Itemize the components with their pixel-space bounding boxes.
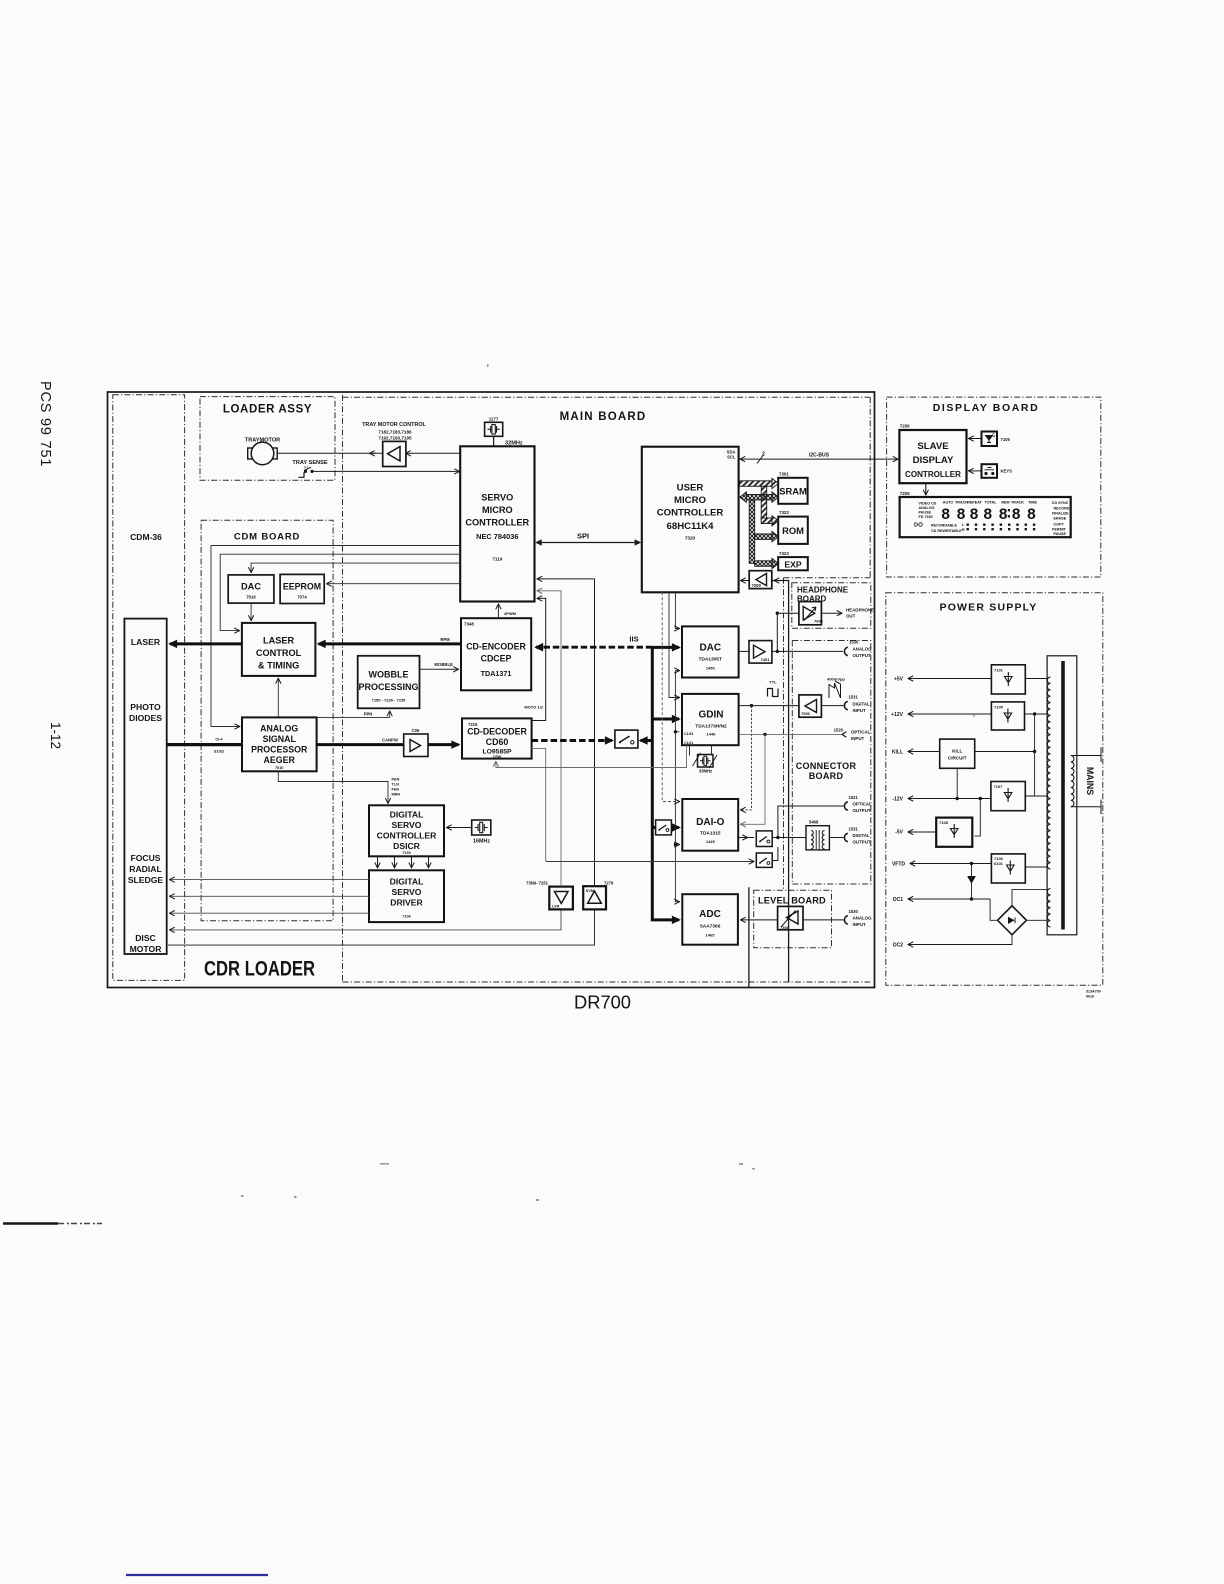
svg-text:MAINS: MAINS	[1085, 767, 1095, 795]
tray motor M1	[245, 438, 280, 465]
svg-text:BOARD: BOARD	[809, 771, 844, 781]
stray pen line bottom left	[3, 1222, 58, 1224]
board border POWER SUPPLY	[886, 593, 1103, 986]
svg-text:SERVO: SERVO	[392, 820, 422, 830]
svg-text:LEVEL BOARD: LEVEL BOARD	[758, 896, 826, 906]
svg-text:IIS: IIS	[629, 635, 638, 644]
crystal 16MHz	[447, 820, 491, 845]
board border LEVEL BOARD	[754, 890, 832, 948]
crystal 33MHz (GDIN)	[690, 745, 718, 773]
wire SDC to IR	[969, 438, 982, 440]
wire thick stub to GDIN	[652, 718, 679, 721]
board border DISPLAY BOARD	[887, 397, 1101, 577]
wire UMC ctrl C to DAC top-left	[675, 592, 679, 628]
wire DAI-O to S4	[738, 837, 754, 839]
svg-text:7105: 7105	[1001, 437, 1011, 442]
wire amp7401 to analog output with junction	[772, 650, 843, 652]
svg-text:FD 7180: FD 7180	[919, 515, 933, 519]
svg-text:CDCEP: CDCEP	[481, 654, 512, 664]
svg-text:ANALOG: ANALOG	[853, 647, 873, 652]
wire DC2 rail	[909, 935, 1013, 945]
wire DAC to LC&T	[250, 603, 252, 620]
svg-text:CIRCUIT: CIRCUIT	[948, 756, 967, 761]
power supply rail labels	[891, 677, 905, 949]
svg-text:INPUT: INPUT	[853, 922, 866, 927]
svg-text:COPY: COPY	[1054, 522, 1065, 526]
wire driver to servo MC	[406, 452, 460, 454]
wire tray motor to driver	[277, 452, 383, 454]
svg-text:S1/S2: S1/S2	[214, 750, 224, 754]
wire -12V rail	[909, 798, 991, 800]
svg-text:-5V: -5V	[895, 830, 903, 836]
block CD-ENCODER CDCEP 7348	[461, 618, 531, 690]
switch S3 before DAI-O	[656, 820, 672, 835]
svg-text:1446: 1446	[707, 732, 717, 737]
svg-text:ADC: ADC	[699, 909, 721, 920]
svg-text:1-12: 1-12	[48, 722, 63, 749]
svg-text:CANPW: CANPW	[382, 737, 398, 742]
svg-text:7150 - 7230 - 7235: 7150 - 7230 - 7235	[372, 698, 407, 703]
svg-text:KEYS: KEYS	[1001, 469, 1013, 474]
wire GDIN to 7500 + drop to DAI-O	[739, 705, 799, 707]
svg-text:SERVO: SERVO	[481, 493, 513, 503]
wire headphone out	[821, 612, 841, 614]
buffer 7200	[749, 571, 772, 589]
svg-text:8: 8	[941, 506, 950, 524]
regulator 7101	[991, 665, 1025, 694]
wire thick stub to DAI-O input switch	[652, 826, 655, 829]
svg-text:7366: 7366	[780, 925, 790, 930]
wire DC1 rail	[909, 898, 991, 900]
svg-text:SVM: SVM	[586, 889, 594, 893]
wire IIS dashed to CD-ENCODER	[536, 646, 652, 649]
svg-text:DIGITAL: DIGITAL	[853, 833, 871, 838]
svg-text:TDA1373H/N2: TDA1373H/N2	[695, 724, 727, 730]
svg-text:KILL: KILL	[892, 750, 903, 756]
block U7119 SERVO MICRO CONTROLLER	[460, 446, 534, 601]
svg-text:7323: 7323	[779, 551, 789, 556]
svg-text:ANALOG: ANALOG	[260, 724, 298, 734]
svg-text:DIODES: DIODES	[129, 713, 162, 723]
svg-text:7107: 7107	[994, 784, 1004, 789]
svg-text:4PWM: 4PWM	[504, 611, 517, 616]
svg-text:D: D	[914, 523, 918, 529]
bus data cross-hatched UMC to SRAM/ROM/EXP	[740, 492, 779, 569]
svg-text:LOADER ASSY: LOADER ASSY	[223, 404, 312, 416]
svg-text:MAIN BOARD: MAIN BOARD	[560, 411, 647, 423]
driver SVM 7279	[583, 881, 614, 910]
connector 1530 analog output	[844, 647, 847, 655]
svg-text:MICRO: MICRO	[482, 505, 513, 515]
svg-text:LVR: LVR	[552, 905, 560, 909]
svg-text:7279: 7279	[604, 881, 614, 886]
svg-text:VFTD: VFTD	[892, 862, 905, 868]
svg-text:+12V: +12V	[891, 712, 903, 718]
svg-text:SPI: SPI	[577, 532, 589, 541]
svg-text:5468: 5468	[809, 820, 819, 825]
svg-text:CONNECTOR: CONNECTOR	[796, 761, 857, 771]
wires DSICR to DSD (4 arrows)	[377, 856, 379, 867]
svg-text:7320: 7320	[685, 536, 696, 541]
EEPROM 7074	[280, 574, 324, 603]
svg-text:LASER: LASER	[263, 636, 295, 646]
svg-text:1530: 1530	[849, 909, 859, 914]
block WOBBLE PROCESSING	[358, 656, 420, 709]
svg-text:HEADPHONE: HEADPHONE	[846, 608, 874, 613]
svg-text:HEADPHONE: HEADPHONE	[797, 586, 849, 595]
svg-text:MOTOR: MOTOR	[130, 944, 163, 954]
svg-text:1531: 1531	[849, 826, 859, 831]
svg-text:8: 8	[983, 506, 992, 524]
svg-text:TRAY MOTOR CONTROL: TRAY MOTOR CONTROL	[362, 422, 426, 428]
connector 1520 optical input	[842, 732, 846, 737]
svg-text:8: 8	[1027, 506, 1036, 524]
svg-text:DC1: DC1	[893, 897, 903, 903]
DAI-O TDA1315	[682, 799, 738, 851]
wire -5V rail	[909, 831, 937, 833]
svg-text:-12V: -12V	[892, 797, 903, 803]
svg-text:OUTPUT: OUTPUT	[853, 808, 871, 813]
wire amp C06 to CD-DECODER thick	[428, 743, 459, 746]
wire UMC to buffer 7200	[741, 580, 749, 582]
svg-text:ANALOG: ANALOG	[919, 506, 935, 510]
svg-text:CONTROLLER: CONTROLLER	[905, 469, 962, 479]
wire CL multi-drop line	[675, 671, 679, 902]
GDIN TDA1373H/N2	[682, 694, 739, 745]
svg-text:USER: USER	[677, 483, 704, 494]
switch S4 after DAI-O (digital out)	[756, 831, 772, 847]
svg-text:DISC: DISC	[135, 933, 156, 943]
svg-text:7106: 7106	[402, 915, 410, 919]
svg-text:7401: 7401	[761, 657, 771, 662]
board border CDM BOARD	[201, 520, 333, 921]
regulator 7100	[991, 854, 1025, 883]
block U7320 USER MICRO CONTROLLER	[642, 447, 739, 593]
wire WOBBLE out to CD-ENCODER	[420, 668, 459, 670]
svg-text:AEGER: AEGER	[264, 755, 296, 765]
board border MAIN BOARD	[343, 395, 871, 982]
KILL CIRCUIT	[940, 739, 975, 768]
svg-text:FOCUS: FOCUS	[130, 853, 160, 863]
svg-text:7130: 7130	[402, 851, 410, 855]
wire IIS stub into switch S2 right	[641, 739, 653, 742]
svg-text:CRW: CRW	[493, 755, 502, 759]
svg-text:7301: 7301	[779, 471, 789, 476]
svg-text:7206: 7206	[900, 424, 910, 429]
svg-text:16MHz: 16MHz	[473, 839, 490, 845]
wire VFTD rail + diode	[911, 863, 992, 865]
svg-text:ANALOG: ANALOG	[853, 916, 873, 921]
amp 7500	[799, 695, 822, 717]
svg-text:TDA1305T: TDA1305T	[699, 657, 723, 663]
amp 7401	[749, 641, 772, 664]
svg-text:OUTPUT: OUTPUT	[853, 653, 871, 658]
wire GDIN optical input + drop to DAI-O	[739, 733, 844, 735]
wire +5V rail	[909, 678, 992, 680]
svg-text:9616: 9616	[1086, 995, 1094, 999]
svg-text:TOTAL: TOTAL	[985, 501, 998, 505]
svg-text:DR700: DR700	[574, 992, 631, 1013]
connector 1530 analog input	[844, 916, 847, 924]
connector 1531 digital output	[844, 833, 847, 841]
svg-text:POWER SUPPLY: POWER SUPPLY	[939, 602, 1037, 614]
svg-text:MICRO: MICRO	[674, 495, 707, 506]
memory EXP 7323	[778, 551, 808, 570]
svg-text:PAUSE: PAUSE	[1054, 532, 1067, 536]
wire level amp to ADC	[741, 919, 778, 921]
wire CD60 clock net to GDIN CL01	[496, 745, 687, 767]
svg-text:DRIVER: DRIVER	[390, 898, 423, 908]
svg-text:1177: 1177	[489, 417, 499, 422]
svg-text:DIGITAL: DIGITAL	[390, 877, 424, 887]
wire SPI bus	[537, 542, 640, 544]
board border HEADPHONE BOARD	[792, 583, 871, 629]
wire MOTO 1/2 CD60 to SMC	[532, 598, 546, 720]
stray blue underline bottom	[126, 1574, 268, 1576]
block DIGITAL SERVO DRIVER 7106	[369, 870, 444, 922]
block DIGITAL SERVO CONTROLLER DSICR 7130	[369, 805, 444, 856]
svg-text:KILL: KILL	[952, 749, 962, 754]
svg-text:1445: 1445	[706, 839, 716, 844]
SLAVE DISPLAY CONTROLLER 7206	[899, 424, 966, 484]
svg-text:CONTROL: CONTROL	[256, 648, 302, 658]
regulator 7105	[991, 702, 1024, 730]
wire tray sense to servo MC	[314, 470, 460, 472]
svg-text:8: 8	[956, 506, 965, 524]
amp C06 (CANPW)	[404, 728, 428, 757]
wire PPN ASP to WOBBLE	[317, 712, 390, 718]
svg-text:PPN: PPN	[364, 711, 373, 716]
block CD-DECODER CD60 7215	[462, 718, 532, 759]
svg-text:CONTROLLER: CONTROLLER	[657, 508, 724, 519]
svg-text:WOBBLE: WOBBLE	[369, 670, 409, 680]
wire +12V rail	[909, 713, 992, 715]
svg-text:MRN: MRN	[392, 793, 401, 797]
svg-text:MOTO 1/2: MOTO 1/2	[524, 705, 543, 710]
svg-text:PROCESSING: PROCESSING	[358, 682, 418, 692]
svg-text:CD REWRITABLE: CD REWRITABLE	[931, 529, 962, 533]
svg-text:RADIAL: RADIAL	[129, 864, 161, 874]
svg-text:OPTICAL: OPTICAL	[853, 802, 873, 807]
svg-text:SIGNAL: SIGNAL	[263, 734, 297, 744]
svg-text:7108: 7108	[939, 820, 949, 825]
svg-text:7322: 7322	[779, 510, 789, 515]
svg-text:SCL: SCL	[727, 455, 736, 460]
wire ASP to LC&T (feedback up)	[277, 679, 279, 718]
svg-text:CD-ENCODER: CD-ENCODER	[466, 642, 526, 652]
wire ASP to amp C06 thick	[317, 743, 404, 746]
svg-text:& TIMING: & TIMING	[258, 661, 299, 671]
svg-text:TDA1315: TDA1315	[700, 831, 721, 837]
wire KILL rail	[909, 751, 940, 753]
svg-text:7119: 7119	[492, 557, 502, 562]
svg-text:PCS 99 751: PCS 99 751	[37, 381, 53, 467]
svg-text:400mVpp: 400mVpp	[827, 677, 845, 682]
block LASER CONTROL & TIMING	[242, 623, 316, 676]
svg-text:CD60: CD60	[486, 737, 509, 747]
transformer 5468	[806, 820, 829, 850]
svg-text:PROCESSOR: PROCESSOR	[251, 745, 308, 755]
crystal X1177 32MHz	[485, 417, 523, 447]
board border CONNECTOR BOARD	[792, 641, 871, 885]
board border LOADER ASSY	[200, 397, 335, 481]
switch S5 lower	[756, 853, 772, 867]
svg-text:EEPROM: EEPROM	[283, 582, 321, 592]
svg-text:TLN: TLN	[392, 783, 400, 787]
svg-text:TDA1371: TDA1371	[481, 669, 512, 678]
svg-text:CI-4: CI-4	[215, 738, 223, 742]
wire optical output branch	[778, 806, 844, 838]
svg-text::: :	[1004, 505, 1013, 523]
wire solid right-column edge	[772, 581, 789, 983]
svg-text:SLEDGE: SLEDGE	[128, 875, 164, 885]
svg-text:CONTROLLER: CONTROLLER	[377, 831, 437, 841]
wire SMC to LC&T left (loop via x=220)	[220, 554, 460, 630]
svg-text:DAC: DAC	[699, 643, 721, 654]
wire LVR to disc motor	[170, 909, 561, 930]
svg-text:LASER: LASER	[131, 637, 161, 647]
driver LVR 73N9-7251	[526, 881, 573, 910]
svg-text:7500: 7500	[801, 711, 811, 716]
svg-text:1450: 1450	[706, 666, 716, 671]
wire 7100 to transformer	[1025, 866, 1047, 868]
wire RPM thick CD-ENCODER to LC&T	[319, 642, 462, 645]
display module 7205	[900, 491, 1071, 537]
svg-text:1530: 1530	[849, 640, 859, 645]
svg-text:CL03: CL03	[684, 732, 693, 736]
svg-text:1531: 1531	[849, 694, 859, 699]
svg-text:33MHz: 33MHz	[699, 769, 712, 774]
wire long input to S5 (from servo area)	[546, 861, 754, 863]
svg-text:CDM BOARD: CDM BOARD	[234, 532, 300, 543]
svg-text:1520: 1520	[834, 727, 844, 732]
svg-text:TTL: TTL	[769, 680, 777, 685]
ADC SAA7366	[682, 894, 738, 945]
svg-text:I2C-BUS: I2C-BUS	[809, 453, 830, 459]
svg-text:7192,7193,7195: 7192,7193,7195	[378, 436, 412, 441]
svg-text:ROM: ROM	[782, 525, 804, 536]
wire S5 to junction	[772, 847, 778, 861]
svg-text:VIDEO CD: VIDEO CD	[919, 501, 937, 505]
svg-text:DC2: DC2	[893, 943, 903, 949]
svg-text:GDIN: GDIN	[699, 710, 724, 721]
wire DAC to amp7401	[739, 650, 749, 652]
wire SDC to keys	[969, 470, 982, 472]
DAC 7016 (CDM board)	[228, 575, 274, 603]
svg-text:7205: 7205	[900, 491, 910, 496]
svg-text:CDM-36: CDM-36	[130, 532, 162, 542]
svg-text:7105: 7105	[994, 705, 1004, 710]
connector 1531 digital input	[844, 701, 847, 709]
wire SMC right to SVM vertical	[538, 579, 595, 886]
wire I2C-BUS to display board	[741, 458, 898, 460]
wire SMC right to LVR vertical	[538, 591, 562, 887]
svg-text:PHOTO: PHOTO	[130, 702, 161, 712]
svg-text:DISPLAY: DISPLAY	[913, 455, 954, 466]
svg-text:1521: 1521	[849, 795, 859, 800]
svg-text:CDR LOADER: CDR LOADER	[204, 957, 315, 981]
wire 4PWM CD-ENCODER to SMC	[497, 605, 499, 619]
block ANALOG SIGNAL PROCESSOR AEGER	[242, 717, 317, 771]
tray sense switch S1	[292, 460, 327, 477]
memory SRAM 7301	[778, 471, 807, 504]
wire SDC to display module	[925, 483, 927, 494]
outer solid frame DR700 unit	[108, 392, 875, 988]
svg-text:AUTO: AUTO	[943, 501, 954, 505]
wire 7500 to digital input	[821, 705, 843, 707]
svg-text:OUTPUT: OUTPUT	[853, 840, 871, 845]
wire SMC to DAC top (loop via x=251)	[251, 563, 460, 572]
svg-text:TRAY SENSE: TRAY SENSE	[292, 460, 327, 466]
svg-text:RECORD: RECORD	[1054, 506, 1070, 510]
svg-text:EXP: EXP	[784, 560, 801, 570]
bridge rectifier	[998, 906, 1027, 935]
wire CD60 dashed output to switch S2	[532, 739, 612, 742]
svg-text:DISPLAY BOARD: DISPLAY BOARD	[933, 402, 1040, 414]
wire analog input to level amp	[803, 919, 844, 921]
svg-text:7074: 7074	[297, 595, 307, 600]
svg-text:DAC: DAC	[241, 582, 261, 592]
CDM-36 mechanism block (LASER..DISC MOTOR)	[124, 619, 166, 954]
svg-text:C06: C06	[412, 728, 420, 733]
wire ASP down to DSICR (PEN TLN FEN MRN)	[278, 771, 388, 803]
svg-text:DIGITAL: DIGITAL	[390, 810, 424, 820]
svg-text:CL01: CL01	[684, 741, 693, 745]
wire S4 output junction to transformer	[772, 837, 806, 839]
amp 7366 level board	[778, 906, 803, 929]
svg-text:REPEAT: REPEAT	[967, 501, 982, 505]
svg-text:TIME: TIME	[1028, 501, 1037, 505]
svg-text:PERMIT: PERMIT	[1052, 527, 1067, 531]
svg-text:DIGITAL: DIGITAL	[853, 702, 871, 707]
svg-text:7182,7183,7186: 7182,7183,7186	[378, 430, 412, 435]
svg-text:1465: 1465	[706, 933, 716, 938]
wire thick LC&T to LASER	[170, 642, 242, 645]
svg-text:SAA7366: SAA7366	[700, 924, 721, 930]
svg-text:7348: 7348	[464, 622, 474, 627]
svg-text:PAUSE: PAUSE	[919, 511, 932, 515]
faint specks	[241, 364, 975, 1201]
wire KILL circuit to -12V	[956, 768, 958, 798]
svg-text:SERVO: SERVO	[392, 887, 422, 897]
svg-text:ERASE: ERASE	[1054, 516, 1067, 520]
svg-text:OPTICAL: OPTICAL	[851, 730, 871, 735]
wire bridge top to transformer	[1012, 890, 1047, 906]
svg-text:RECORDABLE: RECORDABLE	[931, 523, 958, 527]
bus address hatched UMC to SRAM/ROM	[740, 478, 779, 525]
svg-text:7200: 7200	[752, 583, 762, 588]
svg-text:68HC11K4: 68HC11K4	[667, 521, 715, 532]
svg-text:7101: 7101	[994, 668, 1004, 673]
regulator 7108	[936, 818, 972, 847]
svg-text:6101: 6101	[994, 861, 1004, 866]
svg-text:DSICR: DSICR	[393, 841, 421, 851]
connector 1521 optical output	[844, 802, 847, 810]
svg-text:FINALIZE: FINALIZE	[1052, 511, 1069, 515]
svg-text:313A700: 313A700	[1086, 990, 1101, 994]
svg-text:73N9- 7251: 73N9- 7251	[526, 881, 549, 886]
svg-text:SLAVE: SLAVE	[917, 441, 949, 452]
svg-text:8: 8	[969, 506, 978, 524]
svg-text:SRAM: SRAM	[779, 486, 807, 497]
svg-text:DAI-O: DAI-O	[696, 817, 725, 828]
svg-text:R: R	[962, 528, 965, 532]
wire SMC to ASP left (loop via x=211)	[211, 546, 460, 727]
svg-text:+5V: +5V	[894, 677, 904, 683]
svg-text:7600: 7600	[814, 619, 824, 624]
svg-text:PEN: PEN	[392, 778, 400, 782]
DAC TDA1305T	[682, 626, 739, 677]
